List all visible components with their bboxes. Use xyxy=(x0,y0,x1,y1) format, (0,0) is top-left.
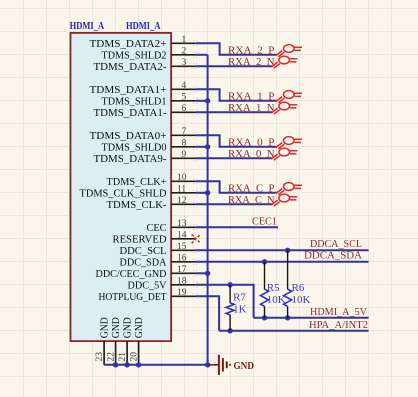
wire pin12 RXA_C_N xyxy=(196,203,272,205)
power ground symbol GND xyxy=(208,355,231,375)
wire pin19 to HPA xyxy=(196,296,219,331)
svg-text:GND: GND xyxy=(122,317,134,338)
pin 3 TDMS_DATA2- xyxy=(94,58,200,73)
wire pin7 to RXA_0_P xyxy=(196,135,277,147)
junction pin20 xyxy=(136,362,141,367)
svg-text:TDMS_CLK-: TDMS_CLK- xyxy=(107,199,167,211)
svg-text:14: 14 xyxy=(177,230,187,240)
pin 21 GND bottom xyxy=(118,317,134,365)
pin 10 TDMS_CLK+ xyxy=(107,173,200,188)
svg-text:RXA_1_N: RXA_1_N xyxy=(228,102,275,114)
svg-text:2: 2 xyxy=(182,46,187,56)
svg-text:RXA_1_P: RXA_1_P xyxy=(228,91,275,103)
svg-text:TDMS_DATA9-: TDMS_DATA9- xyxy=(94,153,167,165)
svg-text:HDMI_A: HDMI_A xyxy=(70,20,105,32)
pin 13 CEC xyxy=(147,219,200,234)
svg-text:HOTPLUG_DET: HOTPLUG_DET xyxy=(99,291,167,303)
svg-text:TDMS_DATA0+: TDMS_DATA0+ xyxy=(90,130,167,142)
wire pin5 to shield bus xyxy=(196,100,208,102)
svg-text:RXA_0_N: RXA_0_N xyxy=(228,148,275,160)
svg-text:TDMS_CLK+: TDMS_CLK+ xyxy=(107,176,167,188)
wire pin16 DDCA_SDA xyxy=(196,261,369,263)
svg-text:23: 23 xyxy=(95,352,105,362)
differential pair marker RXA_1_P xyxy=(276,91,302,103)
svg-text:TDMS_CLK_SHLD: TDMS_CLK_SHLD xyxy=(80,187,167,199)
wire pin13 CEC xyxy=(196,226,278,228)
junction pin22 xyxy=(113,362,118,367)
wire pin3 RXA_2_N xyxy=(196,65,272,67)
pin 23 GND bottom xyxy=(95,317,111,365)
svg-text:RXA_2_N: RXA_2_N xyxy=(228,56,275,68)
svg-text:16: 16 xyxy=(177,253,187,263)
junction R5 top xyxy=(262,259,267,264)
pin 20 GND bottom xyxy=(129,317,145,365)
pin 14 RESERVED xyxy=(113,230,200,245)
svg-text:18: 18 xyxy=(177,276,187,286)
svg-text:DDC_SDA: DDC_SDA xyxy=(120,256,167,268)
svg-text:HDMI_A: HDMI_A xyxy=(126,20,161,32)
svg-text:GND: GND xyxy=(110,317,122,338)
pin 5 TDMS_SHLD1 xyxy=(102,92,200,107)
svg-text:TDMS_DATA1-: TDMS_DATA1- xyxy=(94,107,167,119)
svg-text:TDMS_DATA2-: TDMS_DATA2- xyxy=(94,61,167,73)
svg-text:HPA_A/INT2: HPA_A/INT2 xyxy=(309,319,368,331)
junction bus GND xyxy=(205,362,210,367)
junction pin17 bus xyxy=(205,271,210,276)
svg-text:9: 9 xyxy=(182,150,187,160)
svg-text:10K: 10K xyxy=(292,294,311,306)
svg-text:DDC/CEC_GND: DDC/CEC_GND xyxy=(96,268,167,280)
pin 15 DDC_SCL xyxy=(120,242,200,257)
pin 17 DDC/CEC_GND xyxy=(96,265,200,280)
svg-text:CEC: CEC xyxy=(147,222,167,234)
pin 19 HOTPLUG_DET xyxy=(99,288,200,303)
junction pin8 bus xyxy=(205,144,210,149)
svg-text:5: 5 xyxy=(182,92,187,102)
pin 22 GND bottom xyxy=(106,317,122,365)
pin 18 DDC_5V xyxy=(128,276,200,291)
svg-text:DDCA_SDA: DDCA_SDA xyxy=(304,249,362,261)
wire pin9 RXA_0_N xyxy=(196,157,272,159)
svg-text:TDMS_DATA1+: TDMS_DATA1+ xyxy=(90,84,167,96)
svg-text:RXA_C_N: RXA_C_N xyxy=(228,194,275,206)
wire 5V rail to HDMI_A_5V xyxy=(254,317,369,319)
differential pair marker RXA_2_N xyxy=(271,56,297,68)
svg-text:R6: R6 xyxy=(292,282,305,294)
pin 1 TDMS_DATA2+ xyxy=(90,35,200,50)
svg-text:CEC1: CEC1 xyxy=(252,216,277,228)
wire HPA_A/INT2 xyxy=(219,330,369,332)
wire pin4 to RXA_1_P xyxy=(196,89,277,101)
differential pair marker RXA_1_N xyxy=(271,102,297,114)
svg-text:17: 17 xyxy=(177,265,187,275)
svg-text:DDC_SCL: DDC_SCL xyxy=(120,245,167,257)
svg-text:RXA_0_P: RXA_0_P xyxy=(228,137,275,149)
junction R7 top xyxy=(227,282,232,287)
svg-text:4: 4 xyxy=(182,81,187,91)
svg-text:10: 10 xyxy=(177,173,187,183)
pin 8 TDMS_SHLD0 xyxy=(102,138,200,153)
wire pin8 to shield bus xyxy=(196,146,208,148)
svg-text:22: 22 xyxy=(106,352,116,362)
svg-text:3: 3 xyxy=(182,58,187,68)
svg-text:7: 7 xyxy=(182,127,187,137)
svg-text:1: 1 xyxy=(182,35,187,45)
junction R7 bottom xyxy=(227,328,232,333)
svg-text:8: 8 xyxy=(182,138,187,148)
junction pin21 xyxy=(124,362,129,367)
junction pin11 bus xyxy=(205,190,210,195)
wire pin11 to shield bus xyxy=(196,192,208,194)
svg-text:RXA_2_P: RXA_2_P xyxy=(228,45,275,57)
svg-text:TDMS_SHLD0: TDMS_SHLD0 xyxy=(102,141,167,153)
pin 16 DDC_SDA xyxy=(120,253,200,268)
junction R6 bottom xyxy=(285,315,290,320)
svg-text:1K: 1K xyxy=(233,304,247,316)
differential pair marker RXA_C_N xyxy=(271,194,297,206)
svg-text:15: 15 xyxy=(177,242,187,252)
differential pair marker RXA_0_P xyxy=(276,137,302,149)
resistor R6 10K xyxy=(284,250,311,317)
wire pin10 to RXA_C_P xyxy=(196,181,277,193)
svg-text:R5: R5 xyxy=(267,282,280,294)
wire pin15 DDCA_SCL xyxy=(196,249,369,251)
resistor R5 10K xyxy=(261,262,286,318)
svg-text:6: 6 xyxy=(182,104,187,114)
svg-text:R7: R7 xyxy=(233,292,246,304)
junction R6 top xyxy=(285,248,290,253)
wire pin2 to shield bus xyxy=(196,54,208,56)
pin 2 TDMS_SHLD2 xyxy=(102,46,200,61)
svg-text:TDMS_DATA2+: TDMS_DATA2+ xyxy=(90,38,167,50)
junction R5 bottom xyxy=(262,315,267,320)
svg-text:GND: GND xyxy=(234,360,255,372)
no-ERC marker pin14 xyxy=(192,234,201,243)
junction pin5 bus xyxy=(205,98,210,103)
pin 6 TDMS_DATA1- xyxy=(94,104,200,119)
pin 11 TDMS_CLK_SHLD xyxy=(80,184,200,199)
svg-text:TDMS_SHLD1: TDMS_SHLD1 xyxy=(102,95,167,107)
svg-text:GND: GND xyxy=(133,317,145,338)
svg-text:19: 19 xyxy=(177,288,187,298)
differential pair marker RXA_C_P xyxy=(276,183,302,195)
resistor R7 1K xyxy=(226,285,247,331)
svg-text:GND: GND xyxy=(99,317,111,338)
svg-text:RESERVED: RESERVED xyxy=(113,233,167,245)
svg-text:11: 11 xyxy=(177,184,186,194)
wire GND pins bottom xyxy=(104,364,208,366)
differential pair marker RXA_0_N xyxy=(271,148,297,160)
svg-text:20: 20 xyxy=(129,352,139,362)
wire pin18 DDC_5V feed xyxy=(196,285,254,318)
svg-text:RXA_C_P: RXA_C_P xyxy=(228,183,275,195)
svg-text:HDMI_A_5V: HDMI_A_5V xyxy=(310,306,367,318)
wire pin17 to shield bus xyxy=(196,272,208,274)
svg-text:13: 13 xyxy=(177,219,187,229)
svg-text:21: 21 xyxy=(118,352,128,362)
pin 7 TDMS_DATA0+ xyxy=(90,127,200,142)
pin 12 TDMS_CLK- xyxy=(107,196,200,211)
svg-text:DDC_5V: DDC_5V xyxy=(128,279,167,291)
pin 9 TDMS_DATA9- xyxy=(94,150,200,165)
svg-text:TDMS_SHLD2: TDMS_SHLD2 xyxy=(102,49,167,61)
wire pin6 RXA_1_N xyxy=(196,111,272,113)
wire shield bus vertical xyxy=(207,55,209,365)
svg-text:12: 12 xyxy=(177,196,187,206)
pin 4 TDMS_DATA1+ xyxy=(90,81,200,96)
wire pin1 to RXA_2_P xyxy=(196,43,277,55)
differential pair marker RXA_2_P xyxy=(276,45,302,57)
svg-text:DDCA_SCL: DDCA_SCL xyxy=(310,238,362,250)
connector HDMI_A component body xyxy=(71,33,172,341)
